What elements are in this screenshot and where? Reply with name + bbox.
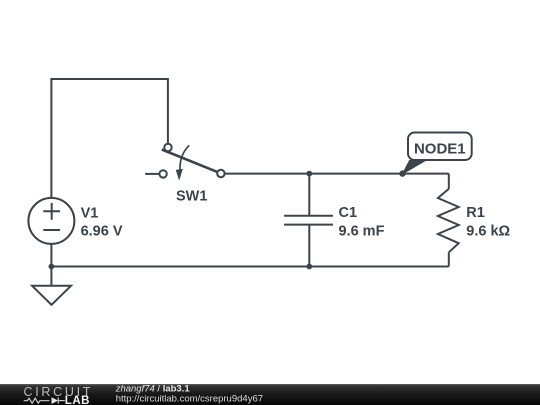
node NODE1 dot <box>399 170 405 176</box>
svg-text:NODE1: NODE1 <box>414 140 466 157</box>
junction dot cap top <box>306 171 312 177</box>
svg-text:LAB: LAB <box>65 395 90 405</box>
svg-text:V1: V1 <box>81 205 99 221</box>
logo CircuitLab <box>24 385 94 405</box>
svg-text:C1: C1 <box>339 205 358 221</box>
ground <box>50 267 52 286</box>
footer credit line <box>115 383 263 404</box>
wire bottom rail <box>51 266 448 268</box>
svg-text:9.6 kΩ: 9.6 kΩ <box>466 224 510 240</box>
svg-text:R1: R1 <box>466 205 485 221</box>
switch SW1 <box>159 144 224 181</box>
node NODE1 callout <box>403 133 472 175</box>
resistor R1 <box>438 174 459 267</box>
label V1 value <box>81 205 123 239</box>
wire top-left loop from V1 to SW1 <box>51 79 167 198</box>
svg-text:SW1: SW1 <box>176 188 207 204</box>
svg-text:http://circuitlab.com/csrepru9: http://circuitlab.com/csrepru9d4y67 <box>116 393 263 404</box>
voltage source V1 <box>28 198 74 244</box>
svg-text:6.96 V: 6.96 V <box>81 224 123 240</box>
capacitor C1 <box>284 174 333 267</box>
junction dot cap bottom <box>306 264 312 270</box>
label R1 value <box>466 205 510 239</box>
svg-text:9.6 mF: 9.6 mF <box>339 224 385 240</box>
footer bar <box>0 384 540 405</box>
junction dot at V1/ground <box>49 264 55 270</box>
wire V1 bottom to ground rail <box>50 244 52 267</box>
wire SW1 left stub <box>145 173 159 175</box>
wire top rail <box>225 173 449 175</box>
label C1 value <box>339 205 385 239</box>
